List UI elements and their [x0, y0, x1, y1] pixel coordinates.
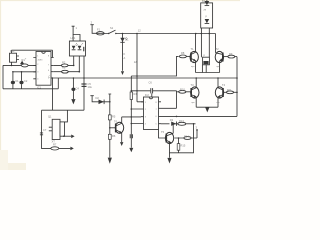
svg-text:R11: R11	[227, 88, 232, 92]
svg-text:PL1: PL1	[10, 49, 15, 53]
svg-text:R8: R8	[181, 51, 185, 55]
svg-text:IC1: IC1	[37, 86, 42, 90]
svg-text:C1: C1	[15, 79, 19, 83]
svg-text:B1: B1	[202, 0, 206, 3]
svg-text:C7: C7	[43, 128, 47, 132]
svg-text:D3: D3	[170, 118, 174, 122]
svg-text:R7: R7	[53, 143, 57, 147]
svg-text:npn: npn	[216, 102, 219, 104]
svg-text:10u: 10u	[88, 85, 93, 89]
svg-text:LD1: LD1	[71, 36, 76, 40]
svg-text:R5: R5	[112, 115, 116, 119]
svg-text:R9: R9	[229, 52, 233, 56]
svg-text:R2: R2	[62, 60, 66, 64]
svg-text:npn: npn	[191, 66, 194, 68]
svg-text:S1: S1	[110, 26, 114, 30]
svg-text:A: A	[124, 56, 126, 60]
svg-text:npn: npn	[216, 66, 219, 68]
svg-text:R3: R3	[62, 66, 66, 70]
svg-text:D1: D1	[125, 37, 129, 41]
svg-text:R6: R6	[112, 134, 116, 138]
svg-text:R15: R15	[181, 144, 186, 148]
svg-text:4093: 4093	[38, 60, 44, 62]
svg-text:R14: R14	[184, 135, 189, 139]
svg-text:Q1: Q1	[48, 115, 52, 119]
svg-text:D2: D2	[96, 96, 100, 100]
svg-text:R10: R10	[180, 87, 185, 91]
svg-text:IC2: IC2	[145, 93, 150, 97]
svg-text:npn: npn	[191, 102, 194, 104]
svg-text:C6: C6	[149, 81, 153, 85]
svg-text:R13: R13	[179, 119, 184, 123]
svg-text:R4: R4	[134, 92, 138, 96]
svg-text:C4: C4	[76, 87, 80, 91]
svg-text:C2: C2	[24, 79, 28, 83]
svg-text:K: K	[124, 52, 126, 56]
